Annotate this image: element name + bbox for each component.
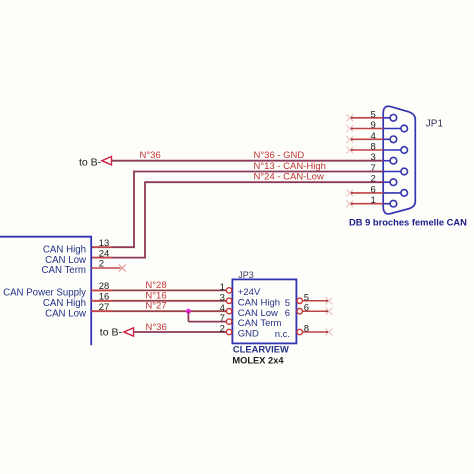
- off-page arrow to B- (bottom): [124, 328, 134, 336]
- JP1 pin 6 circle: [383, 190, 407, 197]
- JP3 inner pin number 5: [285, 298, 290, 309]
- svg-text:N°36: N°36: [140, 150, 161, 161]
- svg-text:5: 5: [304, 292, 309, 303]
- wire stub JP3 pin 5: [302, 300, 329, 303]
- off-page arrow to B- (top): [102, 157, 112, 165]
- net label N36 - GND: [254, 150, 305, 161]
- box pin number 13: [99, 238, 110, 249]
- svg-text:CAN Term: CAN Term: [42, 265, 87, 276]
- wire stub JP3 pin 8: [302, 331, 329, 334]
- svg-text:JP3: JP3: [238, 270, 254, 280]
- svg-text:1: 1: [220, 282, 225, 293]
- svg-text:4: 4: [220, 303, 225, 314]
- svg-text:1: 1: [371, 195, 376, 206]
- wire net N24 horizontal to JP1 pin 2: [145, 181, 383, 183]
- JP3 pin number 7: [220, 313, 225, 324]
- svg-text:9: 9: [371, 120, 376, 131]
- JP3 pin 6 circle (right): [297, 309, 302, 314]
- no-connect x box pin 2: [119, 265, 126, 272]
- net label N36 (bottom): [146, 322, 167, 333]
- JP3 pin 4 circle: [226, 309, 231, 314]
- JP3 pin number 1: [220, 282, 225, 293]
- box label CAN Low (pin 24): [45, 255, 87, 266]
- box pin number 28: [99, 281, 110, 292]
- svg-text:CAN Term: CAN Term: [238, 318, 282, 329]
- svg-text:24: 24: [99, 248, 110, 259]
- JP3 outer pin number 6: [304, 303, 309, 314]
- box pin number 2: [99, 259, 104, 270]
- svg-text:5: 5: [285, 298, 290, 309]
- svg-text:N°36: N°36: [146, 322, 167, 333]
- JP1 pin 3 circle: [383, 157, 397, 164]
- wire stub JP1 pin 6: [350, 192, 383, 195]
- svg-text:+24V: +24V: [238, 287, 261, 298]
- wire net N13 vertical: [133, 171, 135, 248]
- wire net N27 box pin 27 to JP3 pin 4: [91, 310, 226, 312]
- JP3 pin number 4: [220, 303, 225, 314]
- JP3 label GND: [238, 329, 259, 340]
- wire stub box pin 2 CAN Term: [91, 267, 120, 269]
- JP3 label CAN Term: [238, 318, 282, 329]
- JP1 pin number 2: [371, 174, 376, 185]
- JP1 pin number 9: [371, 120, 376, 131]
- net label N16: [145, 290, 166, 301]
- JP1 pin number 3: [371, 152, 376, 163]
- JP3 pin number 3: [220, 292, 225, 303]
- wire net N16 box pin 16 to JP3 pin 3: [91, 300, 226, 302]
- wire net N13 horizontal to JP1 pin 7: [134, 171, 383, 173]
- svg-text:GND: GND: [238, 329, 259, 340]
- wire stub JP1 pin 8: [350, 149, 383, 152]
- JP1 pin 2 circle: [383, 179, 397, 186]
- net label N28: [145, 280, 166, 291]
- svg-text:CAN Power Supply: CAN Power Supply: [3, 288, 86, 299]
- wire stub JP1 pin 4: [350, 138, 383, 141]
- JP1 pin number 8: [371, 142, 376, 153]
- connector JP3 box outline: [232, 279, 296, 343]
- svg-text:to B-: to B-: [79, 156, 102, 168]
- svg-text:CAN High: CAN High: [43, 244, 86, 255]
- JP3 label CAN Low: [238, 308, 278, 319]
- JP1 pin 4 circle: [383, 136, 397, 143]
- box pin number 24: [99, 248, 110, 259]
- svg-text:n.c.: n.c.: [275, 329, 290, 340]
- JP3 pin number 2: [220, 324, 225, 335]
- JP1 pin number 4: [371, 131, 376, 142]
- label JP1: [426, 119, 444, 130]
- label DB 9 broches femelle CAN: [349, 217, 467, 227]
- net label N24 - CAN-Low: [254, 172, 324, 183]
- svg-text:CAN Low: CAN Low: [45, 308, 87, 319]
- JP3 label +24V: [238, 287, 261, 298]
- svg-text:N°27: N°27: [145, 301, 166, 312]
- label to B- (top): [79, 156, 102, 168]
- svg-text:6: 6: [304, 303, 309, 314]
- svg-text:8: 8: [304, 324, 309, 335]
- JP1 pin number 6: [371, 184, 376, 195]
- label to B- (bottom): [100, 327, 123, 339]
- JP3 pin 2 circle: [226, 329, 231, 334]
- no-connect x JP1 pin 1: [346, 200, 353, 207]
- wire stub JP1 pin 1: [350, 202, 383, 205]
- JP1 pin 5 circle: [383, 115, 397, 122]
- svg-text:13: 13: [99, 238, 110, 249]
- wire stub JP1 pin 5: [350, 116, 383, 119]
- JP1 pin 1 circle: [383, 200, 397, 207]
- JP1 pin 8 circle: [383, 147, 407, 154]
- svg-text:to B-: to B-: [100, 327, 123, 339]
- box label CAN Low (pin 27): [45, 308, 87, 319]
- box label CAN High (pin 13): [43, 244, 86, 255]
- wire net N36 GND horizontal to JP1 pin 3: [112, 160, 384, 162]
- no-connect x JP1 pin 8: [346, 147, 353, 154]
- box label CAN Term (pin 2): [42, 265, 87, 276]
- svg-text:2: 2: [220, 324, 225, 335]
- JP1 pin number 5: [371, 109, 376, 120]
- JP3 outer pin number 5: [304, 292, 309, 303]
- no-connect x JP3 pin 8: [326, 329, 333, 336]
- no-connect x JP1 pin 9: [346, 125, 353, 132]
- svg-text:N°16: N°16: [145, 290, 166, 301]
- svg-text:N°28: N°28: [145, 280, 166, 291]
- wire N27 branch to JP3 pin 7 vertical: [187, 311, 189, 321]
- svg-text:N°36 - GND: N°36 - GND: [254, 150, 305, 161]
- svg-text:DB 9 broches femelle CAN: DB 9 broches femelle CAN: [349, 217, 467, 227]
- no-connect x JP3 pin 5: [326, 297, 333, 304]
- svg-text:CAN High: CAN High: [43, 298, 86, 309]
- svg-text:MOLEX 2x4: MOLEX 2x4: [232, 356, 284, 366]
- JP3 pin 5 circle (right): [297, 298, 302, 303]
- JP3 pin 3 circle: [226, 298, 231, 303]
- no-connect x JP1 pin 5: [346, 114, 353, 121]
- JP3 inner pin number 6: [285, 308, 290, 319]
- wire net N24 vertical: [144, 181, 146, 257]
- label MOLEX 2x4: [232, 356, 284, 366]
- svg-text:N°13 - CAN-High: N°13 - CAN-High: [254, 161, 326, 172]
- net label N36 (top left): [140, 150, 161, 161]
- svg-text:4: 4: [371, 131, 376, 142]
- connector JP1 DB9 female body: [383, 106, 415, 214]
- JP3 outer pin number 8: [304, 324, 309, 335]
- box pin number 27: [99, 302, 110, 313]
- JP3 pin 7 circle: [226, 319, 231, 324]
- JP1 pin 9 circle: [383, 125, 407, 132]
- wire net N28 box pin 28 to JP3 pin 1: [91, 289, 226, 291]
- svg-text:JP1: JP1: [426, 119, 444, 130]
- svg-text:CAN Low: CAN Low: [45, 255, 87, 266]
- junction dot on N27: [186, 309, 191, 314]
- box label CAN High (pin 16): [43, 298, 86, 309]
- svg-text:CAN High: CAN High: [238, 297, 280, 308]
- svg-text:3: 3: [220, 292, 225, 303]
- JP3 inner label n.c.: [275, 329, 290, 340]
- JP1 pin number 1: [371, 195, 376, 206]
- box label CAN Power Supply (pin 28): [3, 288, 86, 299]
- svg-text:CLEARVIEW: CLEARVIEW: [233, 344, 289, 354]
- svg-text:CAN Low: CAN Low: [238, 308, 278, 319]
- wire net N13 to box pin 13: [91, 246, 135, 248]
- net label N13 - CAN-High: [254, 161, 326, 172]
- no-connect x JP1 pin 4: [346, 136, 353, 143]
- JP3 pin 1 circle: [226, 288, 231, 293]
- wire N27 branch to JP3 pin 7 horizontal: [188, 321, 226, 323]
- label JP3: [238, 270, 254, 280]
- left ECU box outline: [0, 237, 91, 346]
- no-connect x JP3 pin 6: [326, 308, 333, 315]
- svg-text:8: 8: [371, 142, 376, 153]
- JP3 label CAN High: [238, 297, 280, 308]
- JP3 pin 8 circle (right): [297, 329, 302, 334]
- box pin number 16: [99, 292, 110, 303]
- svg-text:5: 5: [371, 109, 376, 120]
- svg-text:N°24 - CAN-Low: N°24 - CAN-Low: [254, 172, 324, 183]
- svg-text:6: 6: [285, 308, 290, 319]
- JP1 pin number 7: [371, 163, 376, 174]
- label CLEARVIEW: [233, 344, 289, 354]
- svg-text:6: 6: [371, 184, 376, 195]
- wire net N36 bottom to JP3 pin 2: [134, 331, 227, 333]
- no-connect x JP1 pin 6: [346, 189, 353, 196]
- wire stub JP3 pin 6: [302, 310, 329, 313]
- JP1 pin 7 circle: [383, 168, 407, 175]
- net label N27: [145, 301, 166, 312]
- wire stub JP1 pin 9: [350, 127, 383, 130]
- wire net N24 to box pin 24: [91, 257, 146, 259]
- svg-text:7: 7: [220, 313, 225, 324]
